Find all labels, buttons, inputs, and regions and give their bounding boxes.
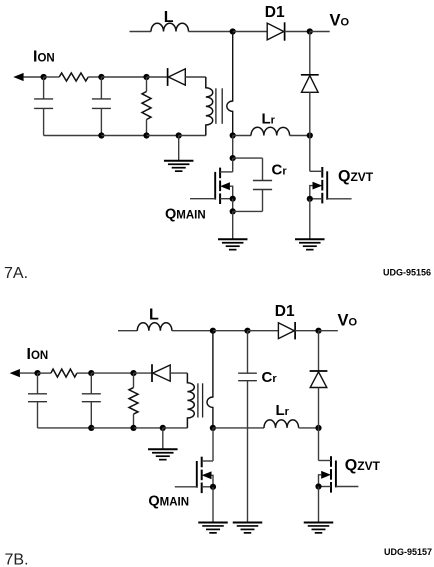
wire 7B Vo node down to zvt diode (318, 331, 320, 371)
wire 7A resistor to node2 (88, 76, 101, 78)
junction node 7A-in3 (143, 74, 149, 80)
inductor Lr (7A) (251, 127, 290, 135)
transistor QMAIN (7B) source lead (202, 486, 213, 488)
transistor QMAIN (7A) body arrow (220, 182, 230, 190)
junction node 7B-rail3 (160, 425, 166, 431)
wire 7A Cr bottom lead (262, 190, 264, 212)
svg-text:QMAIN: QMAIN (148, 494, 189, 510)
wire 7B vertical resistor bottom lead (133, 414, 135, 428)
wire 7B Lr to node F2 (299, 427, 319, 429)
wire 7B clamp diode to transformer primary (170, 372, 187, 374)
svg-text:UDG-95157: UDG-95157 (384, 547, 432, 557)
wire 7B vertical resistor top lead (133, 373, 135, 388)
wire 7A node B down to node C (232, 136, 234, 159)
junction node Vo (7B) (315, 328, 321, 334)
junction node 7A-rail1 (98, 132, 104, 138)
inductor L (7A) (151, 23, 189, 31)
wire 7B bottom rail d (163, 427, 188, 429)
wire 7A vertical resistor top lead (146, 77, 148, 92)
wire 7B bottom rail a (38, 427, 92, 429)
wire 7A Cr top lead (262, 158, 264, 180)
svg-text:QZVT: QZVT (345, 457, 381, 474)
wire 7B Cr bottom lead to ground (247, 381, 249, 522)
wire 7A vertical resistor bottom lead (146, 120, 148, 136)
transistor QZVT (7A) drain lead (310, 170, 323, 172)
wire 7A cap2 bottom lead (100, 108, 102, 135)
wire 7A QZVT source to ground (309, 199, 311, 239)
wire 7A node C to QMAIN drain (232, 158, 234, 172)
wire 7A Lr to node F (290, 135, 310, 137)
junction node D2 (7B QMAIN source) (210, 484, 216, 490)
wire 7B node A to Cr node (213, 330, 248, 332)
wire 7A Vo node down to zvt diode (309, 32, 311, 75)
wire 7B cap1 bottom lead (37, 402, 39, 428)
capacitor (7B filter cap 2) (82, 394, 101, 402)
wire 7B node B2 to QMAIN drain (212, 428, 214, 461)
transformer primary winding (7A) (206, 77, 213, 136)
svg-text:L: L (149, 306, 159, 323)
wire 7B zvt diode to node F2 (318, 388, 320, 428)
transistor QZVT (7B) channel (330, 456, 332, 492)
transistor QZVT (7A) body wire (310, 186, 313, 199)
wire 7A cap2 top lead (100, 77, 102, 99)
junction node B2 (7B: secondary bottom / Lr wire / QMAIN drain) (210, 425, 216, 431)
clamp diode (7B, pointing left) (152, 364, 170, 382)
svg-text:UDG-95156: UDG-95156 (383, 268, 431, 278)
junction node F (7A: Lr / diode / QZVT drain) (307, 132, 313, 138)
transformer primary winding (7B) (187, 373, 194, 428)
transistor QZVT (7B) source lead (319, 486, 332, 488)
wire 7A clamp diode to transformer primary (185, 76, 206, 78)
wire 7A node C to Cr (233, 157, 263, 159)
ground (7A sense network) (164, 161, 194, 171)
wire 7A node B to Lr (233, 135, 251, 137)
junction node 7B-in1 (34, 370, 40, 376)
ground (7B Cr) (233, 523, 263, 533)
wire 7A bottom rail d (179, 135, 206, 137)
transistor QMAIN (7A) drain lead (220, 171, 233, 173)
Ion output arrow (7A) (13, 73, 23, 81)
junction node 7B-rail1 (88, 425, 94, 431)
junction node 7A-rail3 (176, 132, 182, 138)
junction node 7B-in3 (130, 370, 136, 376)
resistor (7B sense filter, horizontal) (51, 369, 77, 377)
capacitor (7B filter cap 1) (28, 394, 47, 402)
junction node A (7A: L / D1 / transformer secondary) (230, 28, 236, 34)
wire 7A D1 cathode to Vo node (285, 31, 310, 33)
ground (7B QMAIN) (198, 523, 228, 533)
wire 7A node F to QZVT drain (309, 136, 311, 172)
wire 7A node1 to resistor (44, 76, 60, 78)
svg-text:D1: D1 (265, 4, 285, 21)
transistor QZVT (7A) source lead (310, 198, 323, 200)
junction node G2 (7B QZVT source) (315, 483, 321, 489)
wire 7A node2 to node3 (101, 76, 146, 78)
transformer secondary / wire node A' down (7B) (207, 331, 213, 428)
resistor (7A sense filter, horizontal) (59, 73, 88, 81)
junction node Vo (7A) (307, 28, 313, 34)
wire 7B bottom rail b (91, 427, 133, 429)
ground (7B QZVT) (304, 523, 334, 533)
wire 7B node3 to clamp diode (134, 372, 153, 374)
junction node D (7A QMAIN source) (230, 196, 236, 202)
transistor QMAIN (7B) gate bar (196, 461, 198, 488)
wire 7A input to L (130, 31, 152, 33)
ground (7B sense network) (148, 449, 178, 459)
junction node 7B-in2 (88, 370, 94, 376)
wire 7B Cr top lead (247, 331, 249, 374)
svg-text:QZVT: QZVT (338, 168, 374, 185)
transistor QMAIN (7A) channel (219, 168, 221, 204)
junction node 7A-in1 (41, 74, 47, 80)
Ion output arrow (7B) (10, 369, 20, 377)
wire 7B cap1 top lead (37, 373, 39, 394)
ground (7A QMAIN) (218, 239, 248, 249)
transistor QMAIN (7A) body wire (230, 186, 233, 199)
transistor QZVT (7A) channel (321, 167, 323, 203)
wire 7B Vo stub (319, 330, 338, 332)
wire 7A ground stub (sense network) (178, 136, 180, 161)
wire 7B node1 to resistor (38, 372, 51, 374)
clamp diode (7A, pointing left) (168, 68, 186, 86)
wire 7A Cr bottom to node E (233, 210, 263, 212)
wire 7B Cr node to D1 (248, 330, 279, 332)
ground (7A QZVT) (295, 239, 325, 249)
wire 7B arrow to node (20, 372, 38, 374)
wire 7B QZVT source to ground (318, 487, 320, 523)
wire 7B input to L (118, 330, 137, 332)
wire 7A cap1 top lead (43, 77, 45, 99)
transistor QZVT (7B) drain lead (319, 460, 332, 462)
inductor Lr (7B) (264, 420, 299, 428)
wire 7B L to node A (172, 330, 213, 332)
transistor QZVT (7A) gate bar (326, 171, 328, 199)
wire 7A zvt diode to node F (309, 92, 311, 135)
wire 7A cap1 bottom lead (43, 108, 45, 135)
transistor QMAIN (7B) drain lead (202, 460, 213, 462)
wire 7A arrow to node (23, 76, 43, 78)
diode D1 (7A) (267, 22, 284, 40)
junction node E (7A Cr bottom) (230, 208, 236, 214)
wire 7A node A to D1 anode (233, 31, 268, 33)
wire 7A bottom rail a (44, 135, 102, 137)
wire 7A node E to ground (232, 211, 234, 239)
wire 7B node F2 to QZVT drain (318, 428, 320, 461)
wire 7B D1 to Vo node (295, 330, 318, 332)
transistor QMAIN (7A) source lead (220, 198, 233, 200)
wire 7A Vo stub (310, 31, 330, 33)
transformer core (7B) (198, 383, 203, 417)
transistor QZVT (7B) gate lead (336, 486, 359, 488)
resistor (7A damping, vertical) (142, 92, 151, 120)
transistor QZVT (7B) body arrow (321, 471, 331, 479)
junction node F2 (7B: Lr / diode / QZVT drain) (315, 425, 321, 431)
wire 7A bottom rail b (101, 135, 146, 137)
wire 7B cap2 bottom lead (90, 402, 92, 428)
svg-text:7B.: 7B. (5, 552, 29, 567)
transistor QMAIN (7A) gate lead (190, 198, 215, 200)
svg-text:QMAIN: QMAIN (165, 207, 206, 223)
junction node 7A-rail2 (143, 132, 149, 138)
resistor (7B damping, vertical) (129, 388, 138, 414)
junction node B (7A: secondary / Lr / QMAIN column) (230, 132, 236, 138)
transistor QZVT (7B) body wire (319, 475, 322, 487)
junction node G (7A QZVT source) (307, 196, 313, 202)
junction node A' (7B: L / transformer secondary) (210, 328, 216, 334)
wire 7A node3 to clamp diode (147, 76, 168, 78)
diode (7B ZVT clamp, pointing up) (310, 371, 328, 388)
wire 7B cap2 top lead (90, 373, 92, 394)
svg-text:D1: D1 (275, 303, 295, 320)
junction node C (7A QMAIN drain / Cr top) (230, 155, 236, 161)
transistor QMAIN (7B) gate lead (175, 486, 197, 488)
transformer secondary / wire node A down (7A) (227, 32, 233, 136)
wire 7B resistor to node2 (77, 372, 91, 374)
transistor QZVT (7B) gate bar (335, 461, 337, 488)
svg-text:7A.: 7A. (4, 265, 28, 282)
transistor QMAIN (7B) channel (201, 457, 203, 493)
junction node B' (7B: Cr top / D1 anode) (244, 328, 250, 334)
transistor QMAIN (7B) body arrow (202, 471, 212, 479)
transistor QZVT (7A) gate lead (327, 198, 351, 200)
diode D1 (7B) (278, 322, 295, 339)
wire 7B bottom rail c (134, 427, 163, 429)
capacitor Cr (7A) (253, 181, 272, 190)
inductor L (7B) (137, 323, 172, 331)
junction node 7A-in2 (98, 74, 104, 80)
wire 7B node2 to node3 (91, 372, 133, 374)
transistor QMAIN (7A) gate bar (214, 172, 216, 200)
wire 7A bottom rail c (147, 135, 179, 137)
transistor QZVT (7A) body arrow (313, 182, 323, 190)
svg-text:L: L (164, 9, 174, 26)
diode (7A ZVT clamp, pointing up) (301, 75, 319, 93)
wire 7B ground stub (sense network) (162, 428, 164, 449)
capacitor Cr (7B) (238, 373, 257, 381)
transistor QMAIN (7B) body wire (212, 475, 214, 487)
wire 7B node B2 to Lr (crosses Cr line, no junction) (213, 427, 264, 429)
wire 7A node D to node E (232, 199, 234, 212)
capacitor (7A filter cap 2) (92, 99, 111, 109)
capacitor (7A filter cap 1) (34, 99, 53, 109)
wire 7B QMAIN source to ground (212, 487, 214, 522)
transformer core (7A) (216, 88, 222, 124)
junction node 7B-rail2 (130, 425, 136, 431)
wire 7A L to node A (189, 31, 233, 33)
